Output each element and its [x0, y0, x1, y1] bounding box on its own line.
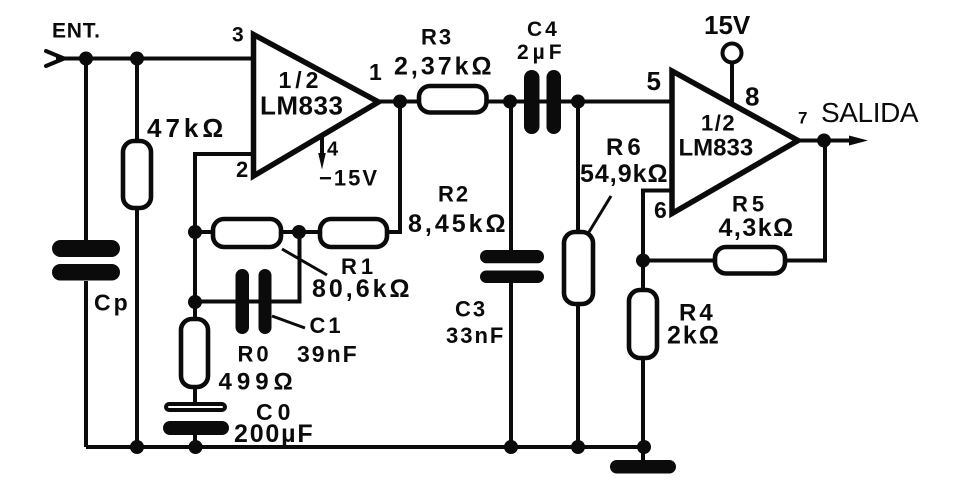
- svg-text:3: 3: [232, 24, 244, 47]
- svg-text:6: 6: [654, 197, 667, 223]
- svg-text:2kΩ: 2kΩ: [667, 322, 721, 350]
- svg-text:R0: R0: [238, 342, 272, 367]
- svg-text:499Ω: 499Ω: [219, 369, 298, 396]
- svg-text:C4: C4: [527, 18, 560, 41]
- svg-text:54,9kΩ: 54,9kΩ: [580, 160, 669, 188]
- svg-text:C1: C1: [310, 313, 344, 338]
- svg-text:15V: 15V: [704, 10, 751, 40]
- svg-text:2µF: 2µF: [517, 41, 566, 64]
- svg-text:R2: R2: [438, 182, 470, 207]
- svg-text:7: 7: [798, 109, 807, 128]
- svg-text:2: 2: [236, 157, 248, 182]
- svg-text:R3: R3: [421, 25, 453, 50]
- svg-text:1: 1: [369, 59, 382, 85]
- svg-text:8: 8: [745, 82, 759, 112]
- svg-text:ENT.: ENT.: [52, 20, 101, 43]
- svg-text:5: 5: [647, 66, 661, 96]
- svg-text:−15V: −15V: [319, 166, 379, 191]
- svg-text:4,3kΩ: 4,3kΩ: [719, 214, 795, 242]
- svg-text:R6: R6: [606, 134, 645, 161]
- svg-text:LM833: LM833: [679, 135, 754, 162]
- svg-text:47kΩ: 47kΩ: [147, 113, 227, 143]
- svg-text:Cp: Cp: [94, 290, 131, 316]
- svg-text:200µF: 200µF: [234, 420, 314, 448]
- svg-text:LM833: LM833: [260, 91, 343, 121]
- svg-text:C3: C3: [455, 297, 487, 322]
- svg-text:R5: R5: [732, 192, 768, 217]
- svg-text:1/2: 1/2: [279, 67, 323, 93]
- svg-text:4: 4: [327, 139, 339, 161]
- svg-text:39nF: 39nF: [297, 341, 359, 367]
- svg-text:2,37kΩ: 2,37kΩ: [394, 53, 495, 81]
- svg-text:8,45kΩ: 8,45kΩ: [408, 210, 509, 238]
- svg-text:80,6kΩ: 80,6kΩ: [312, 275, 413, 303]
- svg-text:33nF: 33nF: [446, 323, 505, 348]
- svg-text:1/2: 1/2: [701, 111, 736, 136]
- svg-text:SALIDA: SALIDA: [821, 97, 919, 128]
